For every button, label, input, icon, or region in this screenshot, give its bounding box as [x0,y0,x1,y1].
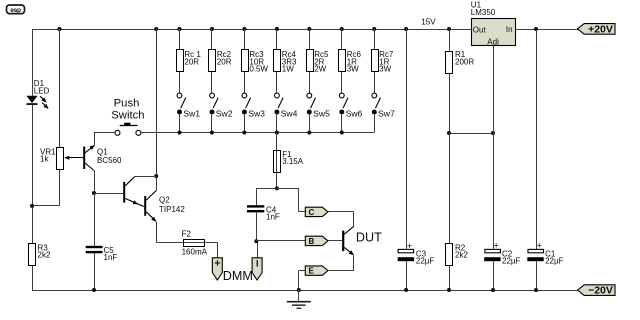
resistor Rc2 [209,29,232,93]
svg-text:3W: 3W [347,65,359,74]
transistor Q2 second stage [144,191,185,222]
wire left rail lower [32,105,34,244]
capacitor C4 [247,205,280,221]
wire switch bus [141,132,374,134]
wire F1 junction to C tag [277,188,305,212]
svg-text:Adj: Adj [487,38,499,47]
svg-text:20R: 20R [184,57,199,66]
wire Adj sense [449,133,493,135]
op-amp U1 LM350 regulator [471,1,516,47]
node top rail / VR1 branch [58,27,62,31]
wire top rail right of U1 [515,29,578,31]
wire +15V top rail [32,29,472,31]
wire B tag to DUT base [328,240,342,242]
fuse F1 [274,133,304,189]
wire F2 to DMM plus [204,242,218,257]
svg-text:Sw4: Sw4 [281,109,298,119]
switch Sw2 [210,93,233,132]
node Q1 collector junction [92,191,96,195]
svg-text:3.15A: 3.15A [282,157,304,166]
LED D1 [26,79,49,109]
wire VR1 bottom to left rail [32,169,60,206]
svg-text:2k2: 2k2 [38,251,51,260]
svg-text:F2: F2 [182,229,192,238]
svg-text:+: + [537,241,542,251]
svg-text:1W: 1W [282,65,294,74]
wire Adj to C2 [493,133,495,249]
switch Sw1 [177,93,200,132]
wire E tag to ground rail [299,271,306,291]
terminal C [305,207,328,216]
terminal +20V [578,23,615,35]
switch Sw4 [274,93,297,132]
node top rail Rc7 [372,27,376,31]
node top rail Q2 branch [154,27,158,31]
node top rail C1 branch [534,27,538,31]
wire C1 to bottom rail [536,261,538,290]
capacitor C5 [86,246,118,262]
wire C1 branch [536,29,538,249]
svg-text:Sw1: Sw1 [183,109,200,119]
node B junction [254,239,258,243]
svg-text:+: + [214,258,220,270]
node top rail Rc5 [307,27,311,31]
wire VR1 top [59,29,61,147]
node C2 bottom rail [491,288,495,292]
svg-text:Out: Out [473,26,487,35]
svg-text:22µF: 22µF [416,256,435,265]
node top rail R1 branch [447,27,451,31]
resistor Rc1 [177,29,202,93]
wire R2 top [449,133,451,243]
wire C3 to bottom rail [406,261,408,290]
transistor Q1 [64,145,122,171]
svg-text:E: E [309,267,315,276]
transistor Q2 first stage [123,177,156,207]
terminal B [305,236,328,245]
node R2 bottom rail [447,288,451,292]
svg-text:3W: 3W [379,65,391,74]
node Q2 collector junction [154,174,158,178]
svg-text:1nF: 1nF [104,253,118,262]
svg-text:200R: 200R [455,57,474,66]
svg-text:Q2: Q2 [159,196,170,205]
wire I tag up [257,241,259,257]
wire C2 to bottom rail [493,261,495,290]
svg-text:+20V: +20V [588,23,613,35]
wire F1 junction to C4 [256,188,277,205]
switch Sw3 [242,93,265,132]
svg-text:1k: 1k [40,155,49,164]
node left rail VR1 junction [30,204,34,208]
wire C4 to B node [256,212,258,241]
node top rail C3 branch [404,27,408,31]
svg-text:Push: Push [114,97,140,109]
node top rail Rc2 [210,27,214,31]
node C5 bottom rail [92,288,96,292]
wire DUT emitter to E tag [328,270,354,272]
node E wire bottom rail [297,288,301,292]
svg-text:LED: LED [34,87,50,96]
wire Adj pin down [493,46,495,133]
capacitor C3 [398,241,435,266]
wire 0V bottom rail [32,290,578,292]
push switch [111,97,144,135]
svg-text:C: C [309,208,315,217]
node top rail Rc1 [178,27,182,31]
capacitor C1 [527,241,563,266]
wire Q1 collector to Q2 base [94,193,123,195]
node Sw6 on bus [340,131,344,135]
svg-text:22µF: 22µF [545,256,564,265]
svg-text:2k2: 2k2 [455,251,468,260]
switch Sw5 [307,93,330,132]
svg-text:Sw7: Sw7 [378,109,395,119]
wire C tag to DUT collector [328,212,354,227]
resistor R1 [446,50,475,73]
svg-text:DMM: DMM [223,269,253,283]
svg-text:LM350: LM350 [471,8,496,17]
svg-text:2W: 2W [314,65,326,74]
wire junction down to C5 [94,193,96,246]
wire Q1 collector down [94,171,96,194]
svg-text:0.5W: 0.5W [249,65,268,74]
svg-text:BC560: BC560 [97,156,122,165]
svg-text:Sw2: Sw2 [216,109,233,119]
wire C5 to bottom rail [94,253,96,290]
wire left rail upper [32,29,34,96]
node Adj wire junction [491,131,495,135]
terminal DMM + [212,258,222,280]
terminal E [305,266,328,275]
resistor R2 [446,244,469,266]
node Sw1 on bus [178,131,182,135]
wire Q2 collector rail [156,29,158,191]
terminal -20V [578,285,615,297]
svg-text:esp: esp [10,7,21,14]
node R1/R2/Adj junction [447,131,451,135]
resistor R3 [29,244,51,266]
node Sw4 on bus [275,131,279,135]
node Sw5 on bus [307,131,311,135]
svg-text:Sw6: Sw6 [346,109,363,119]
wire C3 branch [406,29,408,249]
svg-text:+: + [494,241,499,251]
wire R1 top [449,29,451,51]
ground [287,290,311,309]
node top rail Rc3 [242,27,246,31]
switch Sw7 [372,93,395,132]
switch Sw6 [339,93,362,132]
svg-text:B: B [309,237,315,246]
svg-text:I: I [256,259,259,269]
svg-text:+: + [407,241,412,251]
svg-text:15V: 15V [421,17,436,26]
wire VR1 wiper to Q1 base [65,157,83,159]
svg-text:Sw5: Sw5 [313,109,330,119]
svg-text:1nF: 1nF [266,213,280,222]
svg-text:−20V: −20V [588,285,613,297]
svg-text:22µF: 22µF [502,256,521,265]
wire B node to B tag [256,240,305,242]
svg-text:TIP142: TIP142 [159,205,185,214]
node top rail Rc4 [275,27,279,31]
resistor Rc4 [274,29,298,93]
svg-text:20R: 20R [217,57,232,66]
node F1 bottom junction [275,186,279,190]
svg-text:Switch: Switch [111,110,144,122]
resistor Rc3 [242,29,269,93]
wire R1 bottom to Adj node [449,73,451,133]
wire Q2 emitter to F2 [156,222,182,243]
terminal DMM I [252,258,262,280]
node Sw3 on bus [242,131,246,135]
svg-text:160mA: 160mA [182,248,208,257]
svg-text:In: In [506,25,513,34]
wire left rail bottom [32,266,34,291]
transistor DUT [342,226,382,270]
resistor Rc7 [372,29,394,93]
resistor Rc5 [307,29,330,93]
svg-text:Sw3: Sw3 [248,109,265,119]
potentiometer VR1 [40,148,64,170]
node Sw2 on bus [210,131,214,135]
resistor Rc6 [339,29,362,93]
fuse F2 [182,229,208,256]
svg-text:DUT: DUT [356,231,382,245]
capacitor C2 [484,241,520,266]
ESP logo [7,5,25,14]
node C1 bottom rail [534,288,538,292]
node top rail Rc6 [340,27,344,31]
node C3 bottom rail [404,288,408,292]
wire Q1 emitter up to push switch [94,133,115,146]
wire R2 bottom [449,266,451,291]
